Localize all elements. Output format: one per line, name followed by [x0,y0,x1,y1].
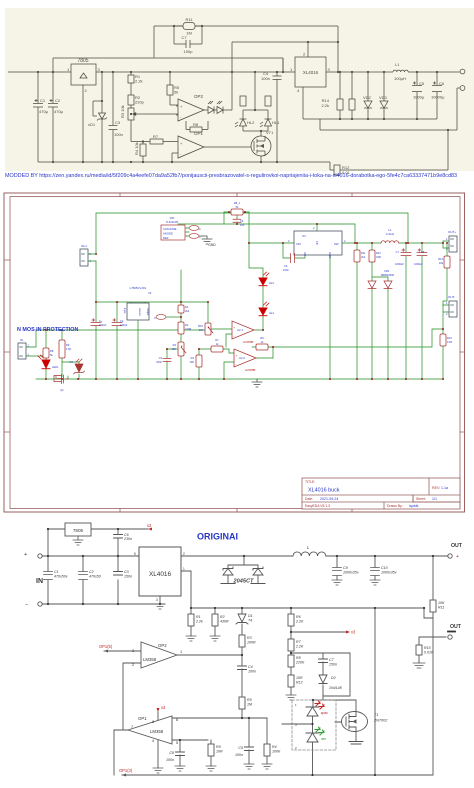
resistor R7 [131,139,178,144]
terminal in plus [38,554,42,558]
svg-text:1M: 1M [247,703,252,707]
svg-text:2N7002: 2N7002 [373,719,388,723]
diode VD3 [380,72,388,119]
zener D1 bottom [236,614,248,624]
svg-text:R2: R2 [220,615,225,619]
resistor R9 led [240,96,246,106]
wire OP1 out to gate [204,146,251,148]
svg-text:ANODE: ANODE [163,232,173,236]
svg-text:100n: 100n [261,76,270,81]
mosfet T1 [342,712,368,732]
svg-text:470uF: 470uF [120,323,128,327]
svg-text:OP1: OP1 [138,716,147,721]
trimmer R3 [128,108,140,142]
wire out- hook [443,305,449,379]
wire R4 R7 [199,349,234,379]
capacitor C6 mid [291,254,295,263]
led red bottom [306,707,319,716]
wire OP1 in- [172,153,178,162]
svg-text:1: 1 [183,567,185,571]
terminal out minus [460,86,465,91]
wire tl431 pins [185,212,224,236]
svg-text:3: 3 [156,598,158,602]
svg-text:T4: T4 [248,619,252,623]
capacitor C8 mid [417,249,427,256]
svg-text:OP1(5): OP1(5) [99,644,113,649]
svg-text:LM358: LM358 [143,657,157,662]
wire C10 legs [374,556,376,580]
wire C1 leg [95,302,97,379]
svg-text:1/1: 1/1 [432,497,437,501]
wire C8 branch [179,740,181,766]
wire R10 out [419,637,446,663]
svg-text:U1: U1 [302,234,306,238]
ground C8 [175,766,185,771]
wire D1 branch [62,362,79,379]
svg-text:R14: R14 [438,257,443,261]
svg-text:R11: R11 [185,17,193,22]
svg-text:R8_1: R8_1 [234,201,241,205]
ground 7805 [73,536,83,545]
svg-text:R9: R9 [216,745,221,749]
svg-text:150n: 150n [124,575,132,579]
wire u21 in- [226,334,232,347]
svg-text:LM358: LM358 [150,729,164,734]
inductor L1 mid [381,241,399,243]
svg-text:C1: C1 [40,98,46,103]
svg-text:100µH: 100µH [394,76,406,81]
junction dots middle [45,211,448,380]
capacitor C1 bottom [44,572,53,580]
capacitor C7 mid [401,249,411,256]
svg-text:C6: C6 [284,264,288,268]
terminal out minus bottom [448,635,452,639]
svg-text:C3: C3 [115,120,121,125]
svg-text:1000x35v: 1000x35v [381,571,397,575]
resistor R3 bottom [239,635,245,647]
resistor R7 bottom [288,639,294,651]
svg-text:R4: R4 [272,745,277,749]
wire U1 gnd [329,255,331,379]
svg-text:7: 7 [131,724,133,729]
wire output rail [342,242,443,244]
resistor R7 mid [211,346,223,352]
dashed optocoupler box [292,700,336,750]
wire op1 pin4 [157,738,159,768]
svg-text:R13: R13 [447,336,452,340]
wire sense feedback [252,329,443,358]
capacitor C3 [109,72,118,162]
svg-text:LED1: LED1 [52,365,59,369]
svg-text:−: − [25,602,28,608]
resistor R6 mid [256,344,268,350]
led HL3 mid [259,272,269,286]
wire C1 legs [47,556,49,604]
wire R9 leg [45,330,47,379]
resistor R4 mid [196,355,202,367]
capacitor C5 mid [233,219,241,222]
wire R12 jog [330,130,448,170]
wire U3 input [96,261,208,303]
svg-text:+: + [456,554,459,560]
netflag oval 1 [189,226,199,231]
wire C4 branch [277,58,283,162]
svg-text:2.2k: 2.2k [135,79,143,84]
wire bottom return [122,618,433,775]
svg-text:D1: D1 [248,614,253,618]
capacitor C8 bottom [176,752,185,756]
svg-text:470uF: 470uF [99,323,107,327]
frame ticks [4,193,465,512]
diode VD2 [364,72,372,119]
svg-text:470x50v: 470x50v [54,575,68,579]
svg-text:IN+1: IN+1 [81,244,87,248]
wire u22 in- [224,362,234,379]
svg-text:R5: R5 [247,698,252,702]
svg-text:1.1a: 1.1a [441,486,448,490]
svg-text:2.2k: 2.2k [321,103,329,108]
svg-text:2021-09-24: 2021-09-24 [320,497,338,501]
svg-text:XL4016: XL4016 [149,571,171,578]
svg-text:5: 5 [134,552,136,556]
wire R2 gnd [214,608,216,636]
svg-text:VD3: VD3 [384,269,390,273]
svg-text:GND: GND [328,252,332,258]
svg-text:R4 10k: R4 10k [134,142,139,155]
svg-text:C+: C+ [99,319,103,323]
ic U3 7805 [123,286,152,320]
svg-text:REV:: REV: [432,486,440,490]
wire main positive rail [8,71,460,73]
wire tl431 to HL chain [249,212,263,278]
svg-text:-: - [234,334,235,338]
zener VD1 (TL431 style) [93,72,107,162]
wire vin net [249,242,294,244]
svg-text:iqubik: iqubik [409,504,419,508]
resistor R9 mid [43,348,49,358]
svg-text:10000µ: 10000µ [431,95,445,100]
svg-text:U2.2: U2.2 [239,356,245,360]
svg-text:10R: 10R [296,676,303,680]
svg-text:1.5K: 1.5K [66,347,72,351]
wire protection top rail [36,329,205,331]
svg-text:REF: REF [163,236,169,240]
wire R14 legs [443,243,447,305]
svg-text:100n: 100n [283,268,289,272]
svg-text:XL4016: XL4016 [303,70,319,75]
svg-text:HL1: HL1 [272,120,280,125]
svg-text:R6: R6 [296,615,301,619]
wire minus rail [42,603,165,605]
svg-text:Sheet:: Sheet: [416,497,426,501]
led HL2 [235,110,247,131]
junction dots top rail [37,71,438,73]
wire op2 out [177,654,242,656]
title block [302,478,460,509]
svg-text:EasyEDA V5.1.3: EasyEDA V5.1.3 [305,504,330,508]
svg-text:+: + [234,326,236,330]
capacitor C4 bottom [238,666,247,670]
svg-text:L7805CV-DG: L7805CV-DG [130,286,147,290]
svg-text:C2: C2 [55,98,61,103]
wire C5 vertical [236,212,238,224]
svg-text:R7: R7 [153,134,159,139]
resistor R2 mid [178,322,184,334]
wire fb net y224 [178,224,355,243]
svg-text:+: + [24,552,27,558]
svg-text:2k2: 2k2 [185,309,190,313]
connector IN [18,338,30,359]
svg-text:OP2: OP2 [194,94,204,99]
wire 7805 input [48,529,65,556]
resistor R8 bottom [288,655,294,667]
ground C10 [370,580,380,585]
netflag C left [156,315,166,320]
svg-text:VD2: VD2 [363,95,372,100]
svg-text:C: C [199,235,201,239]
resistor R10 mid [59,340,65,358]
svg-text:C2: C2 [120,319,124,323]
svg-text:2.2K: 2.2K [295,645,304,649]
svg-text:100n: 100n [235,753,243,757]
svg-text:x3: x3 [351,630,356,635]
svg-text:C9: C9 [343,566,348,570]
svg-text:2: 2 [183,552,185,556]
capacitor C1 mid [91,319,101,326]
svg-text:T1: T1 [374,713,378,717]
wire pr1 tap [211,328,232,330]
resistor R4 bottom [264,744,270,756]
led HL4 [214,72,232,114]
wire op1 out [114,730,128,775]
resistor R10 led [265,96,271,106]
wire R3 tap to OP2 [140,114,178,115]
svg-text:2: 2 [295,746,297,750]
arrow x3 op1 [157,708,160,712]
wire C3 branch [167,349,178,379]
ground XL4016 [155,604,165,609]
ground R2 [210,636,220,641]
svg-text:L1: L1 [395,62,400,67]
capacitor C6 bottom [114,535,123,539]
wire led link [282,700,313,733]
op-amp OP1 [178,136,204,158]
svg-text:R8: R8 [50,349,54,353]
ic XL4016 [295,57,326,87]
svg-text:VD3: VD3 [379,95,388,100]
regulator 7805 bottom [65,523,91,536]
svg-text:C8: C8 [169,751,174,755]
svg-text:R1: R1 [185,305,189,309]
svg-text:1000uF: 1000uF [395,262,404,266]
svg-text:GND: GND [208,243,216,247]
svg-text:HL4: HL4 [269,311,274,315]
wire FB net y42 [232,42,338,72]
svg-text:1: 1 [180,649,182,654]
svg-text:5k: 5k [174,90,178,95]
svg-text:VD1: VD1 [169,216,175,220]
resistor R8_1 [231,209,243,215]
svg-text:Output: Output [146,308,149,316]
svg-text:MODDED BY https://zen.yandex.r: MODDED BY https://zen.yandex.ru/media/id… [5,173,457,179]
svg-text:R9: R9 [66,343,70,347]
resistor R11 feedback [174,23,202,30]
resistor R14 fb mid [444,256,450,268]
svg-text:Date:: Date: [305,497,313,501]
svg-text:1M: 1M [186,31,192,36]
capacitor C5 out [412,72,422,119]
svg-text:R6: R6 [260,336,264,340]
terminal in minus [38,602,42,606]
ic U1 XL4016 [288,226,346,258]
svg-text:10R: 10R [216,750,223,754]
svg-text:MBRF2060: MBRF2060 [381,273,395,277]
wire C6 leg [117,529,119,556]
wire hl chain [254,286,263,330]
wire C3 legs [117,556,119,604]
svg-text:C4: C4 [248,665,253,669]
svg-text:C: C [154,316,156,320]
svg-text:R3 10k: R3 10k [120,105,125,118]
led LED1 [38,355,50,369]
svg-text:C6: C6 [439,81,445,86]
svg-text:470µ: 470µ [39,109,49,114]
inductor L bottom [293,552,326,556]
trimmer R3 mid [178,342,184,356]
wire u22 out [256,357,273,359]
diode 2045CT dual schottky [221,556,265,584]
svg-text:100n: 100n [156,360,162,364]
capacitor C3 bottom [114,572,123,576]
wire U3 gnd [137,320,139,379]
wire R10 leg [61,330,63,377]
svg-text:R3: R3 [247,636,252,640]
wire C2 leg [116,302,118,379]
svg-text:-: - [236,362,237,366]
resistor R12 bottom [288,675,294,687]
svg-text:D1: D1 [70,360,74,364]
svg-text:R1: R1 [196,615,201,619]
wires green [26,212,449,379]
svg-text:10n: 10n [240,223,245,227]
wire feedback top y26 [154,26,338,72]
svg-text:Drawn By:: Drawn By: [387,504,403,508]
capacitor C7 [174,26,202,48]
wire bottom rail [36,378,443,380]
resistor R4 [140,142,146,163]
resistor R11 mid [354,250,360,262]
wire C7 C8 legs [406,243,422,379]
arrow x3 mid [346,631,350,634]
svg-text:3: 3 [132,648,134,653]
resistor R6 bottom [288,614,294,626]
svg-text:vD1: vD1 [88,122,96,127]
svg-text:2: 2 [132,662,134,667]
svg-text:U2.1: U2.1 [237,328,243,332]
wire R9b gnd [210,740,212,766]
svg-text:R8: R8 [193,122,199,127]
ground T1 [349,742,363,745]
wire 5V rail y57 [53,58,283,72]
svg-text:C7: C7 [181,35,187,40]
svg-text:OUT: OUT [450,624,462,630]
wire C9 legs [336,556,338,580]
resistor R2 [128,95,134,108]
wire U1 pin2 stub [316,224,318,231]
svg-text:C2: C2 [89,570,94,574]
svg-text:Ground: Ground [138,308,141,317]
svg-text:R4: R4 [191,356,195,360]
junction dots bottom schematic [47,528,434,776]
wire U3 out ref [207,302,209,323]
svg-text:100n: 100n [248,670,256,674]
svg-text:Input: Input [123,308,126,314]
wire op2 pin2 loop [123,663,141,730]
svg-text:HL3: HL3 [269,281,274,285]
wire op1 pin5 [172,739,208,741]
svg-text:C5: C5 [419,81,425,86]
capacitor C5 bottom [245,747,254,751]
svg-text:VC: VC [303,252,307,256]
svg-text:R7: R7 [296,640,302,644]
svg-text:100n: 100n [114,132,123,137]
wire U1 pin3 C6 [283,243,305,258]
svg-text:10K: 10K [189,360,194,364]
wire R4 branch [266,718,268,764]
capacitor C9 [333,568,342,576]
wire R11 column [424,556,433,618]
connector OUT- [446,295,457,317]
wire C7 D2 loop [291,653,350,696]
wire D1 R3 C4 column [241,608,243,718]
svg-text:220p: 220p [135,100,145,105]
wire R1 gnd [190,608,192,636]
svg-text:VIN: VIN [296,242,301,246]
svg-text:SW: SW [334,242,339,246]
svg-text:крас: крас [321,711,328,715]
svg-text:1: 1 [295,703,297,707]
resistor R5 [167,72,178,105]
svg-text:R3: R3 [173,343,177,347]
ground R4 [262,764,272,769]
svg-text:470x50: 470x50 [89,575,101,579]
resistor R1 [128,72,134,95]
svg-text:220K: 220K [295,661,305,665]
connector OUT+ [446,230,457,252]
capacitor C1 [33,72,43,162]
svg-text:8: 8 [152,719,154,724]
resistor R2 bottom [212,614,218,626]
svg-text:10K: 10K [438,601,445,605]
svg-text:XL4016 buck: XL4016 buck [308,488,340,494]
wire out+ hook [443,241,449,248]
frame inner border [10,197,460,509]
svg-text:ORIGINAI: ORIGINAI [197,532,238,542]
svg-text:L: L [307,545,310,550]
wire vd3 legs [372,289,388,379]
terminal out plus bottom [448,554,452,558]
resistor R1 mid [178,305,184,313]
svg-text:1000uF: 1000uF [414,262,423,266]
svg-text:2045CT: 2045CT [233,579,254,585]
capacitor C10 [371,568,380,576]
led green bottom [306,733,319,742]
wire R8_1 stubs [224,211,249,213]
wire xl4016 gnd [159,596,161,604]
capacitor C2 mid [112,319,122,326]
ground R9 [206,766,216,771]
resistor R13 shunt mid [440,334,446,346]
